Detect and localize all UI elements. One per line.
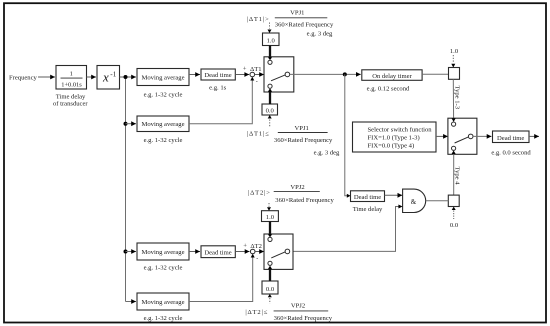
svg-text:0.0: 0.0 bbox=[266, 108, 275, 115]
svg-text:Dead time: Dead time bbox=[204, 72, 231, 79]
svg-text:Dead time: Dead time bbox=[204, 249, 231, 256]
svg-text:&: & bbox=[411, 198, 417, 206]
svg-text:Dead time: Dead time bbox=[354, 194, 381, 201]
svg-text:of transducer: of transducer bbox=[53, 101, 88, 108]
svg-text:+: + bbox=[243, 66, 247, 73]
svg-text:ΔT2: ΔT2 bbox=[250, 243, 262, 250]
svg-text:-1: -1 bbox=[110, 71, 116, 79]
svg-text:360×Rated Frequency: 360×Rated Frequency bbox=[275, 21, 334, 28]
svg-text:|ΔT1|≤: |ΔT1|≤ bbox=[247, 131, 270, 138]
svg-text:Frequency: Frequency bbox=[9, 75, 38, 82]
svg-text:VPJ2: VPJ2 bbox=[291, 303, 305, 310]
svg-text:FIX=1.0 (Type 1-3): FIX=1.0 (Type 1-3) bbox=[368, 135, 420, 142]
svg-text:VPJ1: VPJ1 bbox=[290, 10, 304, 17]
svg-text:e.g. 1-32 cycle: e.g. 1-32 cycle bbox=[144, 92, 183, 99]
svg-text:Type 1-3: Type 1-3 bbox=[454, 86, 461, 110]
svg-text:e.g. 1s: e.g. 1s bbox=[209, 85, 226, 92]
svg-text:e.g. 3 deg: e.g. 3 deg bbox=[314, 149, 340, 156]
svg-text:Moving average: Moving average bbox=[141, 121, 184, 128]
svg-text:VPJ1: VPJ1 bbox=[295, 125, 309, 132]
svg-text:ΔT1: ΔT1 bbox=[250, 66, 262, 73]
svg-text:e.g. 1-32 cycle: e.g. 1-32 cycle bbox=[144, 137, 183, 144]
svg-text:1: 1 bbox=[70, 71, 73, 78]
svg-text:-: - bbox=[256, 80, 258, 86]
svg-text:360×Rated Frequency: 360×Rated Frequency bbox=[274, 315, 333, 322]
svg-text:Dead time: Dead time bbox=[497, 135, 524, 142]
svg-text:1+0.01s: 1+0.01s bbox=[61, 81, 82, 88]
svg-text:Selector switch function: Selector switch function bbox=[368, 127, 433, 134]
svg-text:1.0: 1.0 bbox=[266, 214, 275, 221]
svg-text:FIX=0.0 (Type 4): FIX=0.0 (Type 4) bbox=[368, 143, 415, 150]
svg-text:|ΔT2|≤: |ΔT2|≤ bbox=[245, 309, 268, 316]
svg-text:Moving average: Moving average bbox=[141, 74, 184, 81]
svg-text:-: - bbox=[256, 257, 258, 263]
svg-text:e.g. 0.12 second: e.g. 0.12 second bbox=[367, 85, 410, 92]
svg-text:|ΔT2|>: |ΔT2|> bbox=[248, 190, 271, 197]
svg-text:0.0: 0.0 bbox=[266, 286, 275, 293]
svg-text:x: x bbox=[102, 70, 109, 85]
svg-text:Moving average: Moving average bbox=[141, 299, 184, 306]
svg-text:360×Rated Frequency: 360×Rated Frequency bbox=[274, 137, 333, 144]
svg-text:e.g. 3 deg: e.g. 3 deg bbox=[307, 31, 333, 38]
svg-text:e.g. 1-32 cycle: e.g. 1-32 cycle bbox=[144, 265, 183, 272]
svg-text:On delay timer: On delay timer bbox=[372, 73, 412, 80]
svg-text:|ΔT1|>: |ΔT1|> bbox=[247, 16, 270, 23]
svg-text:1.0: 1.0 bbox=[450, 48, 459, 55]
svg-text:Time delay: Time delay bbox=[353, 206, 383, 213]
svg-text:e.g. 0.0 second: e.g. 0.0 second bbox=[491, 150, 531, 157]
svg-text:0.0: 0.0 bbox=[450, 222, 459, 229]
svg-text:360×Rated Frequency: 360×Rated Frequency bbox=[275, 197, 334, 204]
svg-text:1.0: 1.0 bbox=[267, 38, 276, 45]
svg-text:Moving average: Moving average bbox=[141, 249, 184, 256]
svg-text:+: + bbox=[243, 243, 247, 250]
svg-text:e.g. 1-32 cycle: e.g. 1-32 cycle bbox=[144, 315, 183, 322]
svg-text:Type 4: Type 4 bbox=[454, 167, 461, 186]
svg-text:VPJ2: VPJ2 bbox=[290, 184, 304, 191]
